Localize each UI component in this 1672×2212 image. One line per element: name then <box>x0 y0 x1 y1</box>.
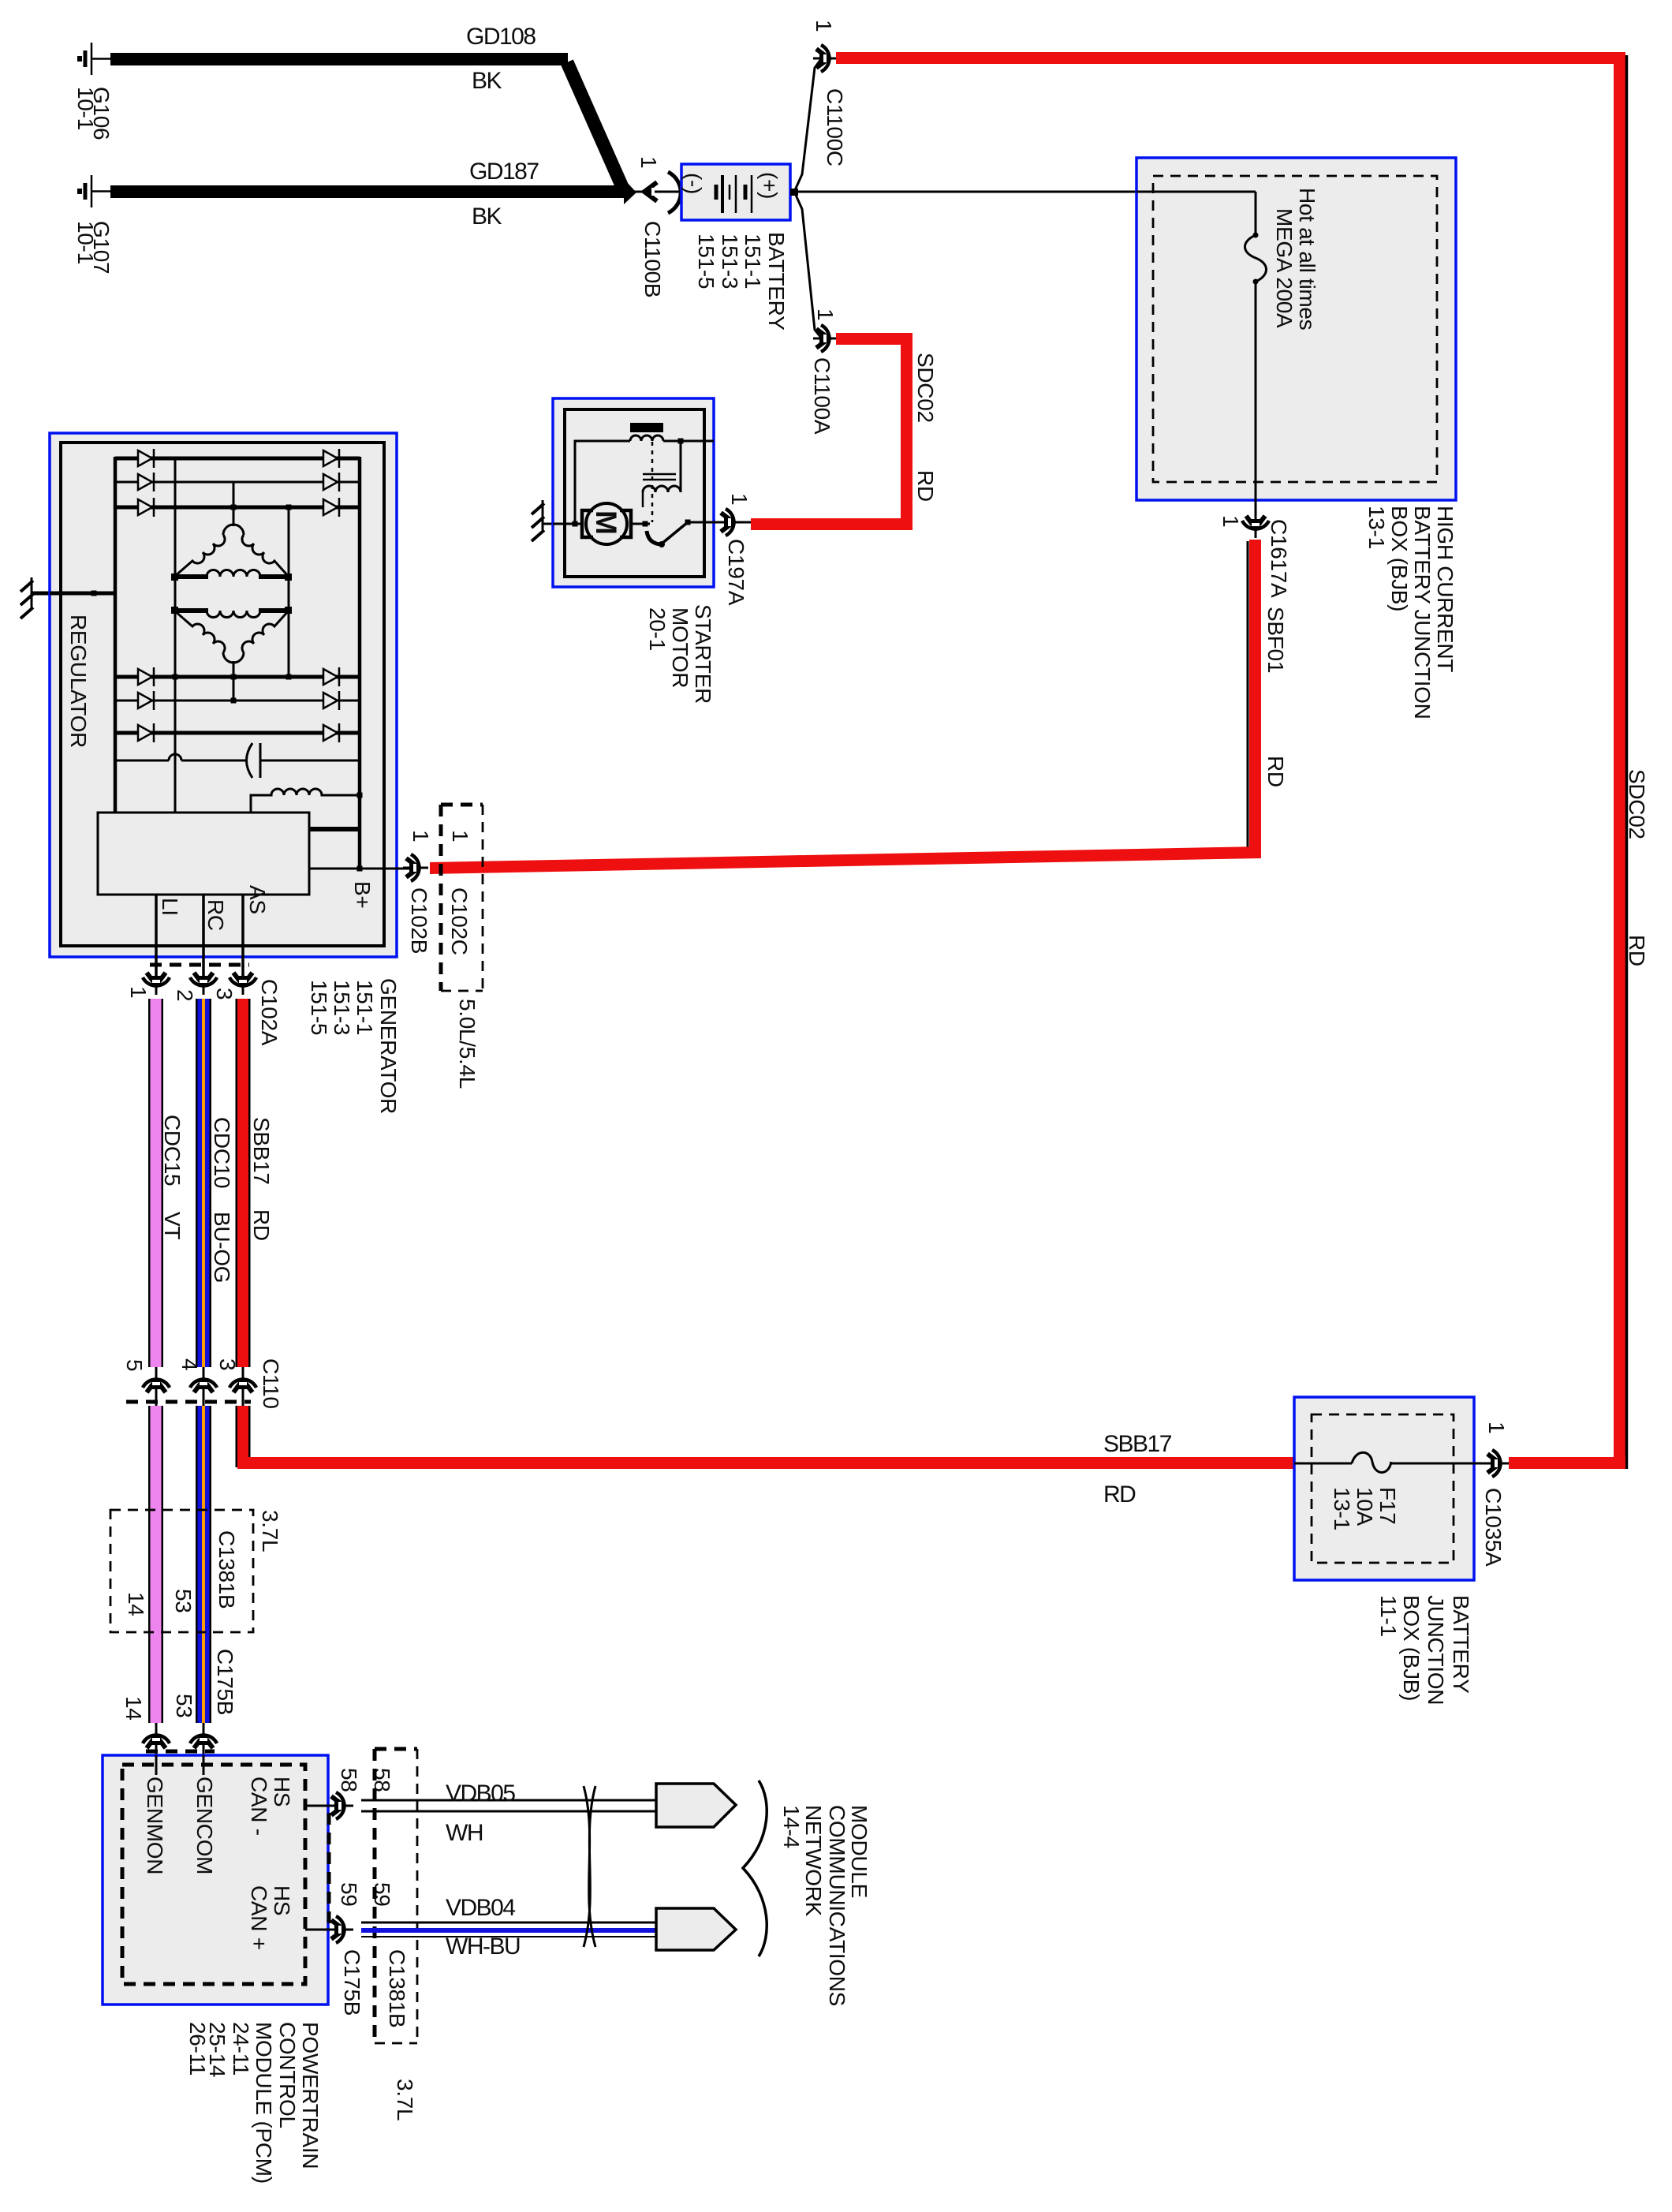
solenoid plunger dashed link <box>651 442 654 522</box>
wire CDC10 BU-OG upper <box>196 999 211 1367</box>
stator tap vertical mid bottom <box>233 661 235 701</box>
starter motor inner box <box>565 409 704 577</box>
svg-text:VDB05: VDB05 <box>446 1780 515 1807</box>
stator delta winding 1 <box>223 525 244 535</box>
wire through fuse F17 <box>1294 1463 1486 1465</box>
wire to connector C1100B <box>634 191 681 193</box>
battery positive stub <box>790 189 798 196</box>
svg-text:1: 1 <box>812 20 836 32</box>
delta corner dots <box>171 574 178 581</box>
crossover hop <box>169 754 181 760</box>
wire switch to box edge <box>688 521 726 524</box>
wire SDC02 RD horizontal (top) <box>836 52 1615 64</box>
svg-text:SBB17: SBB17 <box>1103 1431 1172 1457</box>
solenoid contact plates <box>643 474 676 480</box>
ground G107 <box>80 175 111 207</box>
svg-text:13-1: 13-1 <box>1330 1487 1354 1530</box>
wire battery to C1100C (slanted) <box>795 59 821 190</box>
svg-text:151-3: 151-3 <box>718 234 742 289</box>
svg-text:53: 53 <box>171 1589 196 1613</box>
svg-text:CDC10: CDC10 <box>210 1117 234 1188</box>
capacitor line <box>115 760 360 762</box>
svg-text:4: 4 <box>177 1358 202 1370</box>
svg-text:C1617A: C1617A <box>1267 519 1291 598</box>
svg-text:VDB04: VDB04 <box>446 1895 515 1921</box>
wire solenoid right vertical <box>680 441 682 492</box>
svg-text:RD: RD <box>1625 935 1649 966</box>
wire SDC02 RD to C197A <box>751 518 913 530</box>
svg-text:C1100C: C1100C <box>823 88 847 166</box>
svg-text:(+): (+) <box>757 172 782 199</box>
svg-text:MODULE (PCM): MODULE (PCM) <box>252 2022 276 2184</box>
wire ground to starter box <box>543 523 566 525</box>
svg-text:VT: VT <box>160 1212 185 1239</box>
svg-text:11-1: 11-1 <box>1376 1595 1401 1637</box>
generator right bus <box>358 457 362 869</box>
wire CDC10 BU-OG lower <box>196 1406 211 1723</box>
svg-text:151-5: 151-5 <box>307 980 331 1035</box>
svg-text:13-1: 13-1 <box>1364 506 1389 549</box>
svg-text:1: 1 <box>126 986 151 998</box>
wire battery feed inside BJB <box>1136 191 1256 193</box>
svg-text:RD: RD <box>913 470 938 502</box>
svg-text:LI: LI <box>158 898 182 916</box>
svg-text:GD187: GD187 <box>469 159 539 185</box>
wire ground to generator <box>32 592 117 596</box>
high current BJB dashed inner box <box>1153 176 1437 482</box>
battery box <box>681 164 790 220</box>
svg-text:HS: HS <box>270 1777 294 1807</box>
svg-text:C1035A: C1035A <box>1481 1488 1506 1567</box>
svg-text:C175B: C175B <box>340 1949 364 2016</box>
svg-text:CONTROL: CONTROL <box>275 2022 300 2128</box>
svg-text:C102C: C102C <box>447 887 472 955</box>
diode row 1 <box>115 457 360 461</box>
solenoid pull-in coil <box>630 435 663 441</box>
svg-text:JUNCTION: JUNCTION <box>1424 1595 1448 1705</box>
label MODULE COMMUNICATIONS NETWORK 14-4 <box>779 1805 871 2006</box>
svg-text:14-4: 14-4 <box>779 1805 804 1848</box>
starter motor box <box>553 398 714 587</box>
svg-text:RD: RD <box>1103 1482 1136 1508</box>
svg-text:GENCOM: GENCOM <box>192 1777 217 1874</box>
svg-text:BOX (BJB): BOX (BJB) <box>1399 1595 1424 1701</box>
svg-text:RD: RD <box>249 1209 274 1241</box>
wire SBB17 RD horizontal to BJB <box>237 1457 1294 1469</box>
connector C102B arrow <box>403 854 428 881</box>
svg-text:AS: AS <box>245 885 270 914</box>
svg-text:2: 2 <box>173 989 197 1001</box>
svg-text:3: 3 <box>212 988 237 1000</box>
svg-text:10A: 10A <box>1353 1487 1377 1526</box>
svg-text:1: 1 <box>409 830 433 842</box>
svg-text:GENMON: GENMON <box>143 1777 167 1874</box>
wire SBB17 RD upper <box>236 999 251 1367</box>
svg-text:10-1: 10-1 <box>73 221 98 264</box>
label HS CAN + <box>247 1885 294 1950</box>
wire VDB04 WH-BU twisted pair <box>361 1922 656 1924</box>
wire down to MEGA fuse <box>1255 192 1257 235</box>
connector C102C dashed box <box>441 805 483 991</box>
fuse F17 10A <box>1352 1452 1391 1472</box>
PCM inner dashed box <box>122 1765 305 1984</box>
svg-text:58: 58 <box>337 1768 361 1792</box>
connector C110 dashed line <box>126 1400 251 1404</box>
svg-text:HIGH CURRENT: HIGH CURRENT <box>1433 506 1457 672</box>
svg-text:POWERTRAIN: POWERTRAIN <box>298 2022 323 2169</box>
svg-text:BOX (BJB): BOX (BJB) <box>1387 506 1412 611</box>
wire SDC02 RD vertical mid <box>901 333 913 530</box>
wire MEGA fuse to C1617A <box>1255 282 1257 524</box>
switch hinge arc <box>647 531 661 544</box>
pin 58 arrow <box>328 1792 353 1819</box>
svg-text:3: 3 <box>215 1358 240 1370</box>
svg-text:1: 1 <box>813 308 838 320</box>
svg-text:MOTOR: MOTOR <box>668 607 692 688</box>
svg-text:BATTERY JUNCTION: BATTERY JUNCTION <box>1410 506 1435 719</box>
connector C1381B dashed box (right) <box>375 1749 417 2043</box>
svg-text:B+: B+ <box>350 881 375 908</box>
svg-text:CAN -: CAN - <box>247 1777 271 1836</box>
stator tap vertical right <box>288 507 290 677</box>
svg-text:1: 1 <box>1219 515 1243 527</box>
wire SBF01 black edge line <box>1247 541 1249 854</box>
wire battery to BJB mega fuse <box>795 191 1256 193</box>
generator inner box <box>61 443 384 946</box>
brace (module network) <box>743 1780 767 1956</box>
connector C175B pin lines <box>155 1723 158 1773</box>
pin AS <box>241 895 244 983</box>
ground (starter motor) <box>532 500 544 541</box>
svg-text:14: 14 <box>124 1592 148 1616</box>
svg-text:C102A: C102A <box>257 979 282 1046</box>
junction dot (switch right) <box>685 520 691 525</box>
connector C102A arrows <box>143 970 170 995</box>
network terminator arrow VDB05 <box>656 1784 736 1827</box>
label HS CAN - <box>247 1777 294 1836</box>
wire CDC15 VT (pink) lower <box>148 1406 163 1723</box>
svg-text:C197A: C197A <box>724 539 748 606</box>
svg-text:REGULATOR: REGULATOR <box>66 615 91 748</box>
svg-text:151-5: 151-5 <box>694 234 718 289</box>
diodes right column <box>323 449 339 742</box>
wire GD187 BK (thick black) <box>110 185 628 198</box>
svg-text:NETWORK: NETWORK <box>801 1805 826 1917</box>
svg-text:STARTER: STARTER <box>691 604 715 704</box>
connector C1100B arrow <box>644 182 657 201</box>
wire solenoid left branch <box>575 441 714 524</box>
ground (generator) <box>21 577 33 618</box>
connector C197A arrow <box>726 521 751 524</box>
connector C110 arrows <box>143 1370 170 1396</box>
motor M circle <box>586 503 627 544</box>
svg-text:24-11: 24-11 <box>229 2022 253 2076</box>
svg-text:BK: BK <box>472 68 502 94</box>
svg-text:5.0L/5.4L: 5.0L/5.4L <box>455 999 480 1089</box>
label GENERATOR 151-1 151-3 151-5 <box>307 978 401 1114</box>
svg-text:HS: HS <box>270 1885 294 1915</box>
diode row 3 <box>115 506 360 510</box>
wire SDC02 black edge line <box>1625 55 1629 1469</box>
connector C1617A arrow <box>1242 513 1269 538</box>
connector C175B arrows <box>143 1726 170 1751</box>
svg-text:53: 53 <box>172 1694 196 1718</box>
wire GD108 diagonal jog <box>567 62 622 187</box>
svg-text:RD: RD <box>1263 756 1288 787</box>
svg-text:1: 1 <box>727 493 752 505</box>
switch blade <box>661 522 688 544</box>
diode row 6 <box>115 731 360 735</box>
diode row 2 <box>115 481 360 484</box>
junction dot (ground wire) <box>91 591 97 596</box>
pin 58 wire <box>305 1805 334 1807</box>
motor left bracket <box>582 510 593 537</box>
wire SBB17 RD to SDC02 junction <box>1509 1457 1625 1469</box>
fuse MEGA 200A <box>1245 235 1267 282</box>
stator tap vertical left <box>174 458 177 813</box>
svg-text:M: M <box>590 510 622 535</box>
svg-text:151-1: 151-1 <box>741 234 765 289</box>
pin LI <box>155 895 158 983</box>
junction dot (B+ bus) <box>357 866 363 872</box>
svg-text:SBB17: SBB17 <box>249 1117 274 1185</box>
wire SBB17 RD lower vertical <box>236 1406 251 1467</box>
label HIGH CURRENT BATTERY JUNCTION BOX (BJB) 13-1 <box>1364 506 1457 719</box>
label G106 10-1 <box>73 87 114 140</box>
capacitor <box>247 743 253 778</box>
battery junction box (BJB) <box>1294 1397 1474 1580</box>
svg-text:151-3: 151-3 <box>330 980 354 1035</box>
svg-text:3.7L: 3.7L <box>393 2079 417 2120</box>
svg-text:1: 1 <box>1484 1422 1509 1433</box>
diode row 5 <box>115 700 360 702</box>
svg-text:BK: BK <box>472 204 502 230</box>
svg-text:1: 1 <box>448 830 472 842</box>
battery female arc at C1100B <box>668 172 681 213</box>
label F17 10A 13-1 <box>1330 1487 1400 1530</box>
svg-text:BU-OG: BU-OG <box>210 1212 234 1283</box>
svg-text:C110: C110 <box>259 1358 283 1409</box>
svg-text:20-1: 20-1 <box>645 607 670 651</box>
connector C1100C arrow <box>813 45 838 72</box>
solenoid hold-in coil <box>643 486 681 492</box>
svg-text:C1100A: C1100A <box>810 357 834 435</box>
svg-text:GENERATOR: GENERATOR <box>376 978 401 1114</box>
svg-text:MODULE: MODULE <box>847 1805 871 1898</box>
svg-text:F17: F17 <box>1375 1487 1400 1524</box>
battery plates <box>716 175 752 213</box>
svg-text:C1381B: C1381B <box>215 1530 239 1609</box>
wire battery to C1100A (slanted) <box>795 193 821 338</box>
coil left lead <box>642 492 644 507</box>
svg-text:SDC02: SDC02 <box>913 353 938 423</box>
label POWERTRAIN CONTROL MODULE (PCM) 24-11 25-14 26-11 <box>185 2022 323 2184</box>
label STARTER MOTOR 20-1 <box>645 604 715 704</box>
wire ground segment inside generator <box>50 592 117 596</box>
connector C175B dashed line <box>146 1750 215 1754</box>
svg-text:WH: WH <box>446 1820 483 1846</box>
svg-text:SBF01: SBF01 <box>1263 607 1288 673</box>
svg-text:26-11: 26-11 <box>185 2022 210 2076</box>
wire main line through motor <box>553 523 584 525</box>
svg-text:3.7L: 3.7L <box>258 1510 282 1552</box>
wire SDC02 RD from C1100A <box>836 333 913 345</box>
regulator internal box <box>98 813 309 895</box>
svg-text:C1100B: C1100B <box>640 221 665 297</box>
svg-text:C1381B: C1381B <box>385 1949 409 2027</box>
pin RC <box>202 895 205 983</box>
svg-text:10-1: 10-1 <box>73 87 98 130</box>
wire SBF01 RD vertical <box>1249 540 1261 854</box>
svg-text:(-): (-) <box>681 173 706 194</box>
svg-text:Hot at all times: Hot at all times <box>1295 188 1319 330</box>
connector C175B dashed link (PCM right) <box>327 1813 331 1923</box>
svg-text:COMMUNICATIONS: COMMUNICATIONS <box>825 1805 849 2006</box>
diode row 4 <box>115 675 360 679</box>
svg-text:14: 14 <box>121 1696 146 1721</box>
pin 59 wire <box>305 1929 334 1931</box>
svg-text:C175B: C175B <box>213 1649 237 1715</box>
motor right bracket <box>620 510 631 537</box>
wire SDC02 RD vertical (right edge) <box>1614 52 1625 1469</box>
label G107 10-1 <box>73 221 114 274</box>
label Hot at all times / MEGA 200A <box>1272 188 1319 330</box>
junction dot (motor right) <box>643 521 648 527</box>
twisted pair crossover <box>584 1786 595 1947</box>
connector C110 pin lines <box>155 1367 158 1406</box>
inductor <box>251 789 360 813</box>
svg-text:WH-BU: WH-BU <box>446 1934 520 1960</box>
junction dot (motor left) <box>573 521 578 527</box>
wire SBB17 RD (B+ to BJB) <box>430 846 1261 874</box>
junction dot (solenoid right) <box>678 439 684 444</box>
connector C102A dashed line <box>150 963 249 967</box>
generator box <box>50 433 397 957</box>
svg-text:CAN +: CAN + <box>247 1885 271 1950</box>
svg-text:1: 1 <box>636 156 661 168</box>
label BATTERY 151-1 151-3 151-5 <box>694 232 789 331</box>
junction dots (stator taps) <box>231 505 237 510</box>
PCM pin stubs <box>155 1755 158 1775</box>
svg-text:MEGA 200A: MEGA 200A <box>1272 208 1297 328</box>
svg-text:RC: RC <box>203 899 228 931</box>
connector C1100A arrow <box>813 325 838 352</box>
diodes left column <box>138 449 154 742</box>
network terminator arrow VDB04 <box>656 1908 736 1950</box>
wire junction wedge at C1100B <box>624 179 636 204</box>
svg-text:59: 59 <box>337 1882 361 1907</box>
stator tap vertical mid top <box>233 482 235 526</box>
wire B+ output <box>309 868 410 870</box>
wire VDB05 WH twisted pair <box>361 1799 656 1802</box>
svg-text:5: 5 <box>122 1359 147 1371</box>
svg-text:GD108: GD108 <box>466 24 536 50</box>
svg-text:CDC15: CDC15 <box>160 1115 185 1186</box>
regulator to bus thick link <box>309 827 358 831</box>
pin 59 arrow <box>328 1916 353 1943</box>
solenoid contact bar <box>630 423 663 432</box>
connector C1035A arrow <box>1484 1450 1510 1477</box>
svg-text:SDC02: SDC02 <box>1625 769 1649 839</box>
svg-text:BATTERY: BATTERY <box>1449 1595 1473 1694</box>
connector C1381B dashed box (left) <box>110 1510 253 1632</box>
label BATTERY JUNCTION BOX (BJB) 11-1 <box>1376 1595 1473 1705</box>
svg-text:C102B: C102B <box>407 887 431 954</box>
svg-text:BATTERY: BATTERY <box>764 232 789 331</box>
generator left bus <box>114 457 118 813</box>
wire GD108 BK (thick black) <box>110 53 568 65</box>
ground G106 <box>80 43 111 75</box>
svg-text:151-1: 151-1 <box>353 980 377 1035</box>
stator delta winding 2 <box>207 611 260 618</box>
junction dot (inductor to bus) <box>357 793 363 798</box>
wire CDC15 VT (pink) upper <box>148 999 163 1367</box>
high current BJB box <box>1136 158 1456 500</box>
powertrain control module (PCM) box <box>103 1755 328 2005</box>
BJB dashed inner box <box>1312 1414 1454 1563</box>
